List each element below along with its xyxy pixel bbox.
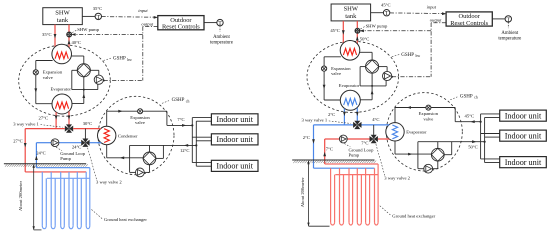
label GSHP_hw: [392, 53, 421, 58]
label expansion valve ch: [419, 111, 439, 121]
ground loop header C: [335, 174, 378, 176]
svg-text:27°C: 27°C: [39, 116, 49, 121]
svg-text:35°C: 35°C: [93, 6, 103, 11]
wire controls to ambient sensor: [204, 22, 217, 24]
svg-text:3 way valve 1: 3 way valve 1: [13, 121, 39, 126]
svg-text:SHW pump: SHW pump: [366, 24, 388, 29]
svg-text:GSHP: GSHP: [172, 98, 185, 103]
label ambient temperature: [210, 35, 233, 46]
label GSHP_hw: [104, 57, 133, 62]
ground loop pump: [51, 139, 59, 147]
three-way valve 1: [353, 121, 361, 129]
label return temperature: [468, 145, 478, 150]
ground loop header B: [314, 167, 375, 169]
label drop temperature: [13, 139, 23, 144]
evaporator GSHP_hw: [340, 90, 360, 110]
label 3 way valve 2: [88, 148, 123, 185]
ground loop pump: [339, 135, 347, 143]
ground heat exchanger loops: [331, 164, 379, 225]
wire four-way valve stubs ch: [150, 145, 164, 158]
svg-text:2°C: 2°C: [328, 112, 335, 117]
svg-text:45°C: 45°C: [465, 114, 475, 119]
wire hx to expansion valve ch: [107, 110, 167, 127]
svg-text:valve: valve: [135, 120, 145, 125]
label ambient temperature: [498, 31, 521, 42]
label supply temperature: [330, 28, 340, 33]
three-way valve 2: [81, 139, 89, 147]
label output: [430, 18, 442, 23]
indoor unit 3 stubs: [481, 159, 500, 163]
wire sensor to label: [507, 22, 509, 28]
wire controls to ambient sensor: [492, 18, 505, 20]
wire four-way valve loop: [360, 67, 386, 86]
pipe evaporator in: [68, 111, 71, 124]
label ground loop pump: [344, 144, 374, 158]
svg-text:7°C: 7°C: [326, 147, 333, 152]
svg-text:12°C: 12°C: [180, 148, 190, 153]
wire condenser to four-way valve: [360, 52, 373, 60]
pipe supply to indoor units: [167, 124, 192, 127]
indoor unit 1 stubs: [481, 114, 500, 118]
label evaporator hw: [339, 83, 360, 88]
compressor GSHP_hw: [383, 71, 392, 80]
pipe ground loop pump line: [325, 138, 390, 140]
svg-text:Expansion: Expansion: [331, 66, 351, 71]
signal wire to compressor: [103, 80, 143, 82]
expansion valve GSHP_hw: [322, 66, 327, 71]
indoor unit 3: [211, 160, 258, 171]
ground loop header C: [47, 177, 90, 179]
svg-text:Reset Controls: Reset Controls: [162, 24, 200, 31]
svg-text:valve: valve: [331, 71, 341, 76]
label riser temperature: [326, 147, 333, 152]
label valve 2 temperature: [72, 144, 82, 149]
SHW tank (right): [331, 4, 371, 21]
ground surface: [4, 164, 88, 167]
wire hx to expansion valve ch: [395, 106, 455, 123]
three-way valve 1: [65, 124, 73, 132]
GSHP_hw boundary: [307, 41, 399, 112]
svg-text:ch: ch: [474, 96, 478, 100]
pipe tank supply: [54, 25, 57, 51]
pipe header to heat pump: [25, 128, 101, 130]
pipe evaporator out: [55, 112, 58, 128]
svg-text:3 way valve 1: 3 way valve 1: [302, 118, 328, 123]
label return temperature: [180, 148, 190, 153]
label input: [138, 8, 148, 13]
label 3 way valve 1: [302, 118, 351, 124]
signal wire input: [390, 12, 447, 15]
label ground heat exchanger: [92, 210, 148, 223]
expansion valve GSHP_hw: [33, 70, 38, 75]
pipe tank supply: [342, 21, 345, 47]
svg-text:Indoor unit: Indoor unit: [505, 132, 542, 141]
svg-text:Ambient: Ambient: [501, 31, 518, 36]
pipe header to heat pump: [314, 124, 390, 126]
svg-text:GSHP: GSHP: [113, 57, 126, 62]
GSHP_ch boundary: [98, 96, 174, 174]
svg-text:temperature: temperature: [498, 37, 521, 42]
svg-text:3 way valve 2: 3 way valve 2: [384, 176, 410, 181]
svg-text:output: output: [141, 21, 153, 26]
label expansion valve hw: [43, 70, 63, 80]
SHW pump: [355, 28, 360, 33]
svg-text:SHW: SHW: [55, 9, 70, 16]
svg-text:valve: valve: [423, 116, 433, 121]
label about 200meter: [18, 181, 23, 211]
Outdoor Reset Controls box: [158, 16, 204, 31]
label return temperature: [360, 36, 370, 41]
label header temperature: [83, 121, 93, 126]
svg-text:Reset Controls: Reset Controls: [450, 20, 488, 27]
signal wire to SHW pump: [71, 33, 143, 36]
svg-text:35°C: 35°C: [42, 32, 52, 37]
wire evaporator to four-way valve: [72, 77, 85, 104]
pipe tank return: [68, 25, 71, 51]
pipe into hx bottom: [97, 142, 101, 144]
label supply temperature: [465, 114, 475, 119]
label tank temperature: [93, 6, 103, 11]
svg-text:Ground heat exchanger: Ground heat exchanger: [392, 213, 435, 218]
label ground loop pump: [56, 147, 86, 161]
signal wire input: [102, 16, 159, 19]
condenser GSHP_hw: [340, 41, 360, 61]
Outdoor Reset Controls box: [446, 12, 492, 27]
svg-text:40°C: 40°C: [72, 40, 82, 45]
wire compressor to four-way valve: [379, 67, 387, 72]
expansion valve GSHP_ch: [426, 105, 431, 110]
pipe trunk supply: [191, 118, 193, 163]
svg-text:Evaporator: Evaporator: [339, 83, 360, 88]
svg-text:7°C: 7°C: [361, 141, 368, 146]
svg-text:input: input: [138, 8, 148, 13]
wire tank to sensor: [371, 12, 384, 14]
svg-text:Evaporator: Evaporator: [406, 130, 427, 135]
label evaporator hw: [51, 87, 72, 92]
ground surface: [292, 160, 376, 163]
pipe riser from ground: [323, 139, 326, 164]
svg-text:Indoor unit: Indoor unit: [216, 162, 253, 171]
svg-text:Expansion: Expansion: [43, 70, 63, 75]
svg-text:hw: hw: [416, 54, 421, 58]
svg-text:T: T: [97, 15, 101, 21]
signal wire to SHW pump: [360, 29, 432, 32]
three-way valve 2: [370, 135, 378, 143]
four-way valve GSHP_hw: [366, 60, 379, 73]
label SHW pump: [72, 27, 100, 32]
ground loop header A: [36, 167, 89, 169]
wire compressor to four-way valve ch: [433, 161, 438, 169]
svg-text:SHW pump: SHW pump: [77, 27, 99, 32]
temperature sensor ambient: [505, 16, 511, 24]
four-way valve GSHP_ch: [431, 148, 444, 161]
pipe into hx top: [97, 128, 101, 130]
temperature sensor T tank: [383, 10, 389, 18]
wire return to compressor ch: [130, 145, 136, 172]
svg-text:temperature: temperature: [210, 40, 233, 45]
wire return to compressor ch: [418, 142, 424, 169]
GSHP_hw boundary: [19, 45, 111, 116]
indoor unit 2 stubs: [481, 134, 500, 138]
svg-text:2°C: 2°C: [303, 135, 310, 140]
label GSHP_ch: [162, 98, 189, 103]
pipe ground loop pump line: [36, 142, 101, 144]
svg-text:T: T: [385, 11, 389, 17]
svg-text:Condenser: Condenser: [118, 133, 138, 138]
svg-text:ch: ch: [186, 99, 190, 103]
svg-text:Pump: Pump: [349, 153, 360, 158]
wire compressor to four-way valve: [90, 70, 98, 75]
svg-text:hw: hw: [127, 58, 132, 62]
Evaporator GSHP_ch: [386, 123, 404, 141]
indoor unit 1: [500, 110, 547, 121]
pipe tank return: [356, 21, 359, 47]
label drop temperature: [303, 135, 310, 140]
label GSHP_ch heat exchanger: [406, 130, 427, 135]
wire condenser to expansion valve: [323, 57, 341, 100]
svg-text:GSHP: GSHP: [460, 94, 473, 99]
wire compressor to four-way valve ch: [144, 165, 149, 173]
label supply temperature: [42, 32, 52, 37]
label return temperature: [72, 40, 82, 45]
compressor GSHP_hw: [94, 75, 103, 84]
svg-text:Indoor unit: Indoor unit: [216, 115, 253, 124]
compressor GSHP_ch: [136, 168, 145, 177]
label supply temperature: [177, 117, 184, 122]
indoor unit 1: [211, 114, 258, 125]
label riser temperature: [36, 150, 46, 155]
svg-text:50°C: 50°C: [468, 145, 478, 150]
svg-text:30°C: 30°C: [83, 121, 93, 126]
indoor unit 3 stubs: [192, 163, 211, 167]
pipe drop to ground: [24, 129, 27, 172]
svg-text:50°C: 50°C: [360, 36, 370, 41]
wire condenser to four-way valve: [71, 56, 84, 64]
pipe return from indoor units: [130, 144, 197, 147]
pipe trunk return: [484, 118, 486, 163]
signal wire output: [431, 23, 446, 77]
label tank temperature: [381, 3, 391, 8]
indoor unit 1 stubs: [192, 118, 211, 122]
pipe evaporator out: [343, 109, 346, 125]
GSHP_ch boundary: [386, 93, 462, 171]
wire hx to four-way valve ch: [107, 145, 143, 160]
pipe evaporator in: [356, 108, 359, 121]
label header temperature: [372, 117, 379, 122]
wire four-way valve stubs ch: [438, 142, 452, 155]
depth dimension line: [33, 164, 42, 230]
label output: [141, 21, 153, 26]
svg-text:About 200meter: About 200meter: [300, 177, 305, 207]
ground loop header B: [25, 171, 86, 173]
label GSHP_ch heat exchanger: [118, 133, 138, 138]
svg-text:45°C: 45°C: [381, 3, 391, 8]
svg-text:24°C: 24°C: [36, 150, 46, 155]
svg-text:Indoor unit: Indoor unit: [505, 158, 542, 167]
svg-text:Evaporator: Evaporator: [51, 87, 72, 92]
label about 200meter: [300, 177, 305, 207]
indoor unit 2: [211, 134, 258, 145]
wire condenser to expansion valve: [34, 61, 52, 104]
wire tank to sensor: [82, 15, 95, 17]
ground heat exchanger loops: [42, 168, 90, 229]
label evaporator water temperature: [328, 112, 335, 117]
svg-text:About 200meter: About 200meter: [18, 181, 23, 211]
depth dimension line: [307, 160, 329, 226]
svg-text:Ground heat exchanger: Ground heat exchanger: [104, 217, 147, 222]
label expansion valve ch: [130, 115, 150, 125]
svg-text:Pump: Pump: [60, 156, 71, 161]
svg-text:tank: tank: [57, 17, 69, 24]
four-way valve GSHP_ch: [143, 152, 156, 165]
label input: [427, 4, 437, 9]
label 3 way valve 1: [13, 121, 62, 127]
signal wire to compressor: [391, 76, 431, 78]
svg-text:output: output: [430, 18, 442, 23]
wire branch to valve 2: [373, 125, 375, 135]
temperature sensor T tank: [95, 13, 101, 21]
pipe trunk supply: [480, 114, 482, 159]
pipe return from indoor units: [418, 140, 485, 143]
svg-text:Indoor unit: Indoor unit: [505, 112, 542, 121]
pipe into hx top: [386, 124, 390, 126]
svg-text:valve: valve: [43, 75, 53, 80]
Condenser GSHP_ch: [98, 126, 116, 144]
svg-text:24°C: 24°C: [72, 144, 82, 149]
label SHW pump: [361, 24, 389, 29]
label GSHP_ch: [450, 94, 477, 99]
label 3 way valve 2: [376, 144, 411, 181]
label expansion valve hw: [331, 66, 351, 76]
wire four-way valve loop: [72, 70, 98, 89]
svg-text:45°C: 45°C: [330, 28, 340, 33]
signal wire output: [143, 27, 158, 81]
four-way valve GSHP_hw: [77, 64, 90, 77]
condenser GSHP_hw: [52, 44, 72, 64]
svg-text:3 way valve 2: 3 way valve 2: [96, 179, 122, 184]
compressor GSHP_ch: [424, 164, 433, 173]
svg-text:Ambient: Ambient: [213, 35, 230, 40]
svg-text:7°C: 7°C: [177, 117, 184, 122]
indoor unit 2 stubs: [192, 137, 211, 141]
wire hx to four-way valve ch: [395, 141, 431, 156]
evaporator GSHP_hw: [52, 94, 72, 114]
svg-text:SHW: SHW: [344, 6, 359, 13]
SHW tank: [43, 8, 83, 25]
svg-text:tank: tank: [345, 13, 357, 20]
pipe supply to indoor units: [455, 120, 480, 123]
ground loop header A: [325, 163, 378, 165]
indoor unit 2: [500, 130, 547, 141]
svg-text:Indoor unit: Indoor unit: [216, 135, 253, 144]
svg-text:input: input: [427, 4, 437, 9]
wire evaporator to four-way valve: [360, 73, 373, 100]
label ground heat exchanger: [380, 206, 436, 219]
label valve 2 temperature: [361, 141, 368, 146]
pipe riser from ground: [35, 143, 38, 168]
temperature sensor ambient: [217, 19, 223, 27]
label evaporator water temperature: [39, 116, 49, 121]
SHW pump: [67, 32, 72, 37]
pipe trunk return: [195, 121, 197, 166]
pipe drop to ground: [312, 125, 315, 168]
expansion valve GSHP_ch: [138, 109, 143, 114]
svg-text:GSHP: GSHP: [401, 53, 414, 58]
pipe into hx bottom: [386, 138, 390, 140]
indoor unit 3: [500, 157, 547, 168]
svg-text:4°C: 4°C: [372, 117, 379, 122]
wire sensor to label: [219, 26, 221, 32]
svg-text:27°C: 27°C: [13, 139, 23, 144]
wire branch to valve 2: [84, 129, 86, 139]
